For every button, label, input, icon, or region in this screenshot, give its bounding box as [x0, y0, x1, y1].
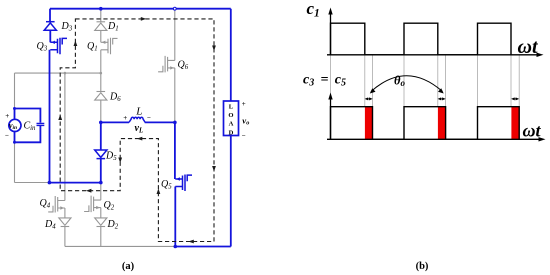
waveform c1 — [331, 23, 512, 55]
wire Q4 to D4 — [64, 208, 66, 218]
wire Vin- stub — [14, 131, 16, 142]
wire D2 to bottom rail — [100, 227, 102, 247]
node bottom — [174, 245, 178, 249]
width marker 1 — [366, 98, 371, 100]
theta arc — [371, 76, 443, 92]
loop arrow up left-top — [74, 41, 78, 47]
node rail D6 — [100, 72, 103, 75]
y-axis c3c5 — [330, 97, 332, 139]
load box — [224, 101, 239, 136]
loop arrow left y138 — [137, 137, 143, 141]
red pulse 1 — [365, 107, 373, 140]
transistor Q2 — [84, 196, 101, 213]
node bus left — [48, 181, 52, 185]
loop arrow up x60 — [58, 115, 62, 121]
transistor Q3 — [50, 38, 67, 55]
x-axis arrow c1 — [537, 53, 544, 57]
guide lines — [331, 55, 520, 107]
source Vin — [9, 119, 21, 131]
waveform c3c5 — [331, 107, 520, 140]
transistor Q4 — [48, 196, 65, 213]
diode D4 — [59, 218, 71, 227]
wire bottom blue — [175, 246, 231, 248]
svg-text:ωt: ωt — [518, 36, 539, 58]
red pulse 2 — [438, 107, 446, 140]
theta arc arrowhead left — [370, 88, 376, 93]
diode D2 — [95, 218, 107, 227]
wire Vin loop bottom — [15, 126, 41, 142]
wire Vin column upper — [14, 73, 16, 108]
wire Vin+ stub — [14, 109, 16, 120]
node Vin- — [13, 141, 16, 144]
inductor L — [129, 117, 145, 122]
svg-text:ωt: ωt — [523, 121, 542, 141]
wire Vin column lower — [14, 142, 16, 182]
wire D4 to bottom rail — [64, 227, 66, 247]
svg-text:+: + — [123, 114, 127, 122]
wire Q6 top — [174, 9, 176, 61]
wire D1 top — [100, 9, 102, 22]
guide x=519.2 — [518, 55, 520, 107]
wire rail to D6 — [100, 73, 102, 92]
svg-text:D: D — [229, 129, 234, 136]
wire D5 to bus — [100, 159, 102, 183]
theta arc arrowhead right — [438, 88, 444, 93]
y-axis c1 — [330, 12, 332, 55]
node top Q6 (open) — [173, 7, 176, 10]
node top D1 — [99, 7, 103, 11]
transistor Q1 — [101, 38, 118, 55]
wire bottom rail — [65, 245, 175, 247]
wire top rail Vin+ to D6 top — [15, 72, 101, 74]
wire inductor rail left — [101, 121, 129, 123]
wire Q3 to bus node — [49, 50, 51, 183]
guide x=372.5 — [372, 55, 374, 107]
node bus right — [99, 181, 103, 185]
loop arrow up x158 — [157, 189, 161, 195]
diode D3 — [44, 22, 56, 31]
y-axis arrow c1 — [328, 8, 332, 15]
wire D3 to Q3 — [49, 30, 51, 42]
svg-text:O: O — [228, 112, 233, 119]
guide x=437.8 — [437, 55, 439, 107]
wire inductor rail right — [145, 121, 175, 123]
loop arrow down right-top — [212, 46, 216, 52]
diode D5 — [95, 150, 107, 159]
red pulse 3 — [511, 107, 519, 140]
svg-text:(b): (b) — [416, 261, 429, 272]
guide axis link — [330, 55, 332, 97]
node mid left — [99, 121, 103, 125]
axes c1 — [327, 12, 540, 55]
guide x=511 — [510, 55, 512, 107]
polarity marks — [5, 100, 246, 140]
transistor Q5 — [175, 175, 192, 192]
wire Q4 column from rail — [64, 73, 66, 200]
loop arrow left y190 — [86, 189, 92, 193]
wire D1 to Q1 — [100, 30, 102, 42]
gray wires group — [15, 9, 176, 247]
axes c3c5 — [327, 97, 542, 139]
svg-text:A: A — [229, 121, 234, 128]
wire Q6 node to Q5 — [174, 122, 176, 179]
guide x=445.6 — [445, 55, 447, 107]
x-axis c1 — [327, 54, 540, 56]
svg-text:−: − — [147, 114, 151, 122]
wire Q5 to bottom — [174, 187, 176, 247]
guide x=477.5 — [477, 55, 479, 107]
width marker 2 — [439, 98, 444, 100]
node Vin+ — [13, 107, 16, 110]
x-axis c3c5 — [327, 138, 542, 140]
wire Vin loop top — [15, 109, 41, 123]
svg-text:L: L — [229, 103, 234, 110]
width marker 3 — [513, 98, 518, 100]
node mid right — [173, 121, 177, 125]
diode D6 — [95, 92, 107, 101]
node rail Q4 — [64, 72, 67, 75]
wire Q1 to top rail — [100, 50, 102, 73]
wire Vin- to blue bus — [15, 182, 50, 184]
svg-text:L: L — [135, 106, 142, 118]
wire Q2 column from blue bus — [100, 183, 102, 201]
blue wires group — [15, 9, 231, 247]
svg-text:+: + — [242, 100, 246, 108]
svg-text:−: − — [242, 132, 246, 140]
wire D6 to mid node — [100, 100, 102, 121]
circuit labels — [24, 21, 250, 231]
wire Q6 to mid node — [174, 68, 176, 123]
dashed current loop — [60, 19, 214, 242]
loop arrow down right-mid — [212, 166, 216, 172]
wire mid node down to D5 — [100, 122, 102, 150]
wire top bus — [50, 8, 231, 10]
wire left column top to D3 — [49, 9, 51, 22]
capacitor Cin plates — [37, 123, 45, 125]
loop arrow left bottom — [188, 240, 194, 244]
wire right column top — [230, 9, 232, 101]
guide x=364.8 — [364, 55, 366, 107]
guide x=404 — [403, 55, 405, 107]
transistor Q6 — [158, 56, 175, 73]
svg-text:−: − — [5, 132, 9, 140]
wire right column bottom — [230, 136, 232, 247]
diode D1 — [95, 22, 107, 31]
y-axis arrow c3c5 — [328, 93, 332, 100]
wire Q2 to D2 — [100, 208, 102, 219]
svg-text:(a): (a) — [122, 261, 135, 272]
loop arrow down x120 — [118, 158, 122, 164]
svg-text:+: + — [5, 112, 9, 120]
x-axis arrow c3c5 — [539, 137, 546, 141]
loop arrow right top — [141, 17, 147, 21]
wire blue bus — [49, 182, 101, 184]
